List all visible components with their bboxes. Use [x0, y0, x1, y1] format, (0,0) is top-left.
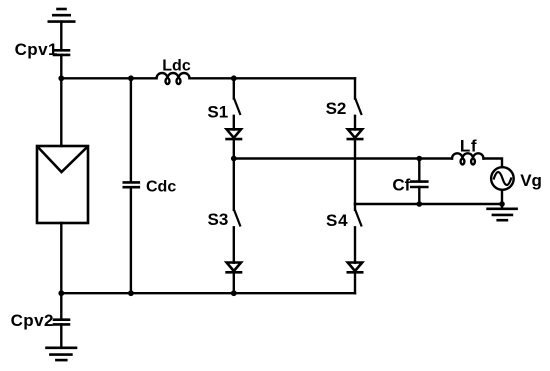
diode D1	[227, 129, 241, 139]
svg-text:Cpv1: Cpv1	[15, 40, 58, 59]
svg-text:S3: S3	[208, 210, 229, 229]
wire Lf to Vg corner	[484, 159, 503, 168]
node junction bottom-left	[58, 290, 64, 296]
wire node to PV top	[60, 78, 62, 146]
wire stub to ground	[501, 204, 503, 209]
wire output rail 2	[355, 203, 502, 205]
wire D3 to bottom rail	[233, 272, 235, 293]
ground GND1 (top-left, flipped earth)	[49, 9, 74, 22]
wire S2 top stub	[354, 78, 356, 98]
wire PV bottom to node	[60, 223, 62, 293]
node junction Vg ground	[499, 201, 505, 207]
node junction S3 bottom	[231, 290, 237, 296]
wire ground to Cpv1	[60, 22, 62, 51]
source Vg	[491, 167, 514, 190]
node junction top-left	[58, 75, 64, 81]
switch S4	[356, 211, 362, 226]
switch S3	[234, 211, 240, 226]
ground GND3 (below Vg)	[488, 209, 517, 220]
node junction Cf bottom	[417, 201, 423, 207]
wire S2 blade to diode	[354, 116, 356, 130]
svg-text:S1: S1	[207, 103, 228, 122]
node junction Cdc top	[128, 75, 134, 81]
switch S2	[356, 99, 362, 114]
wire S3 top stub	[233, 159, 235, 210]
wire node to Cpv2	[60, 293, 62, 319]
switch S1	[234, 99, 240, 114]
diode D2	[348, 129, 362, 139]
wire Vg bottom	[501, 190, 503, 204]
svg-text:Cpv2: Cpv2	[11, 311, 54, 330]
wire Cdc branch top	[130, 78, 132, 182]
wire D4 to bottom rail	[354, 272, 356, 293]
PV panel	[37, 146, 88, 223]
diode D4	[348, 263, 362, 273]
wire top rail right segment	[190, 77, 356, 79]
wire Cpv2 to ground	[60, 324, 62, 347]
node junction Cdc bottom	[128, 290, 134, 296]
svg-text:S4: S4	[326, 211, 348, 230]
diode D3	[227, 263, 241, 273]
capacitor Cpv1	[54, 50, 69, 55]
svg-text:S2: S2	[326, 99, 347, 118]
node junction leg1 mid	[231, 156, 237, 162]
node junction Cf top	[417, 156, 423, 162]
svg-text:Cdc: Cdc	[146, 178, 176, 195]
wire S4 blade to diode	[354, 227, 356, 262]
wire Cpv1 to node	[60, 55, 62, 78]
wire S1 blade to diode	[233, 116, 235, 130]
wire S3 blade to diode	[233, 227, 235, 262]
wire D1 to node	[233, 139, 235, 158]
inductor Lf	[452, 153, 484, 164]
wire Cf bottom stub	[418, 187, 420, 204]
svg-text:Ldc: Ldc	[162, 57, 191, 74]
ground GND2 (bottom-left)	[47, 348, 77, 360]
svg-text:Cf: Cf	[392, 176, 410, 195]
wire bottom rail	[61, 292, 355, 294]
wire output rail 1	[234, 157, 452, 159]
capacitor Cdc	[124, 182, 139, 187]
wire D2 down across rail1 to rail2 corner	[354, 139, 356, 204]
svg-text:Vg: Vg	[520, 171, 542, 190]
capacitor Cf	[411, 182, 427, 187]
wire Cdc branch bottom	[130, 187, 132, 293]
svg-text:Lf: Lf	[460, 136, 477, 155]
wire S4 top stub	[354, 204, 356, 210]
node junction S1 top	[231, 75, 237, 81]
wire S1 top stub	[233, 78, 235, 98]
capacitor Cpv2	[54, 320, 69, 325]
wire top rail left segment	[61, 77, 156, 79]
wire Cf top stub	[418, 159, 420, 182]
inductor Ldc	[157, 73, 190, 84]
